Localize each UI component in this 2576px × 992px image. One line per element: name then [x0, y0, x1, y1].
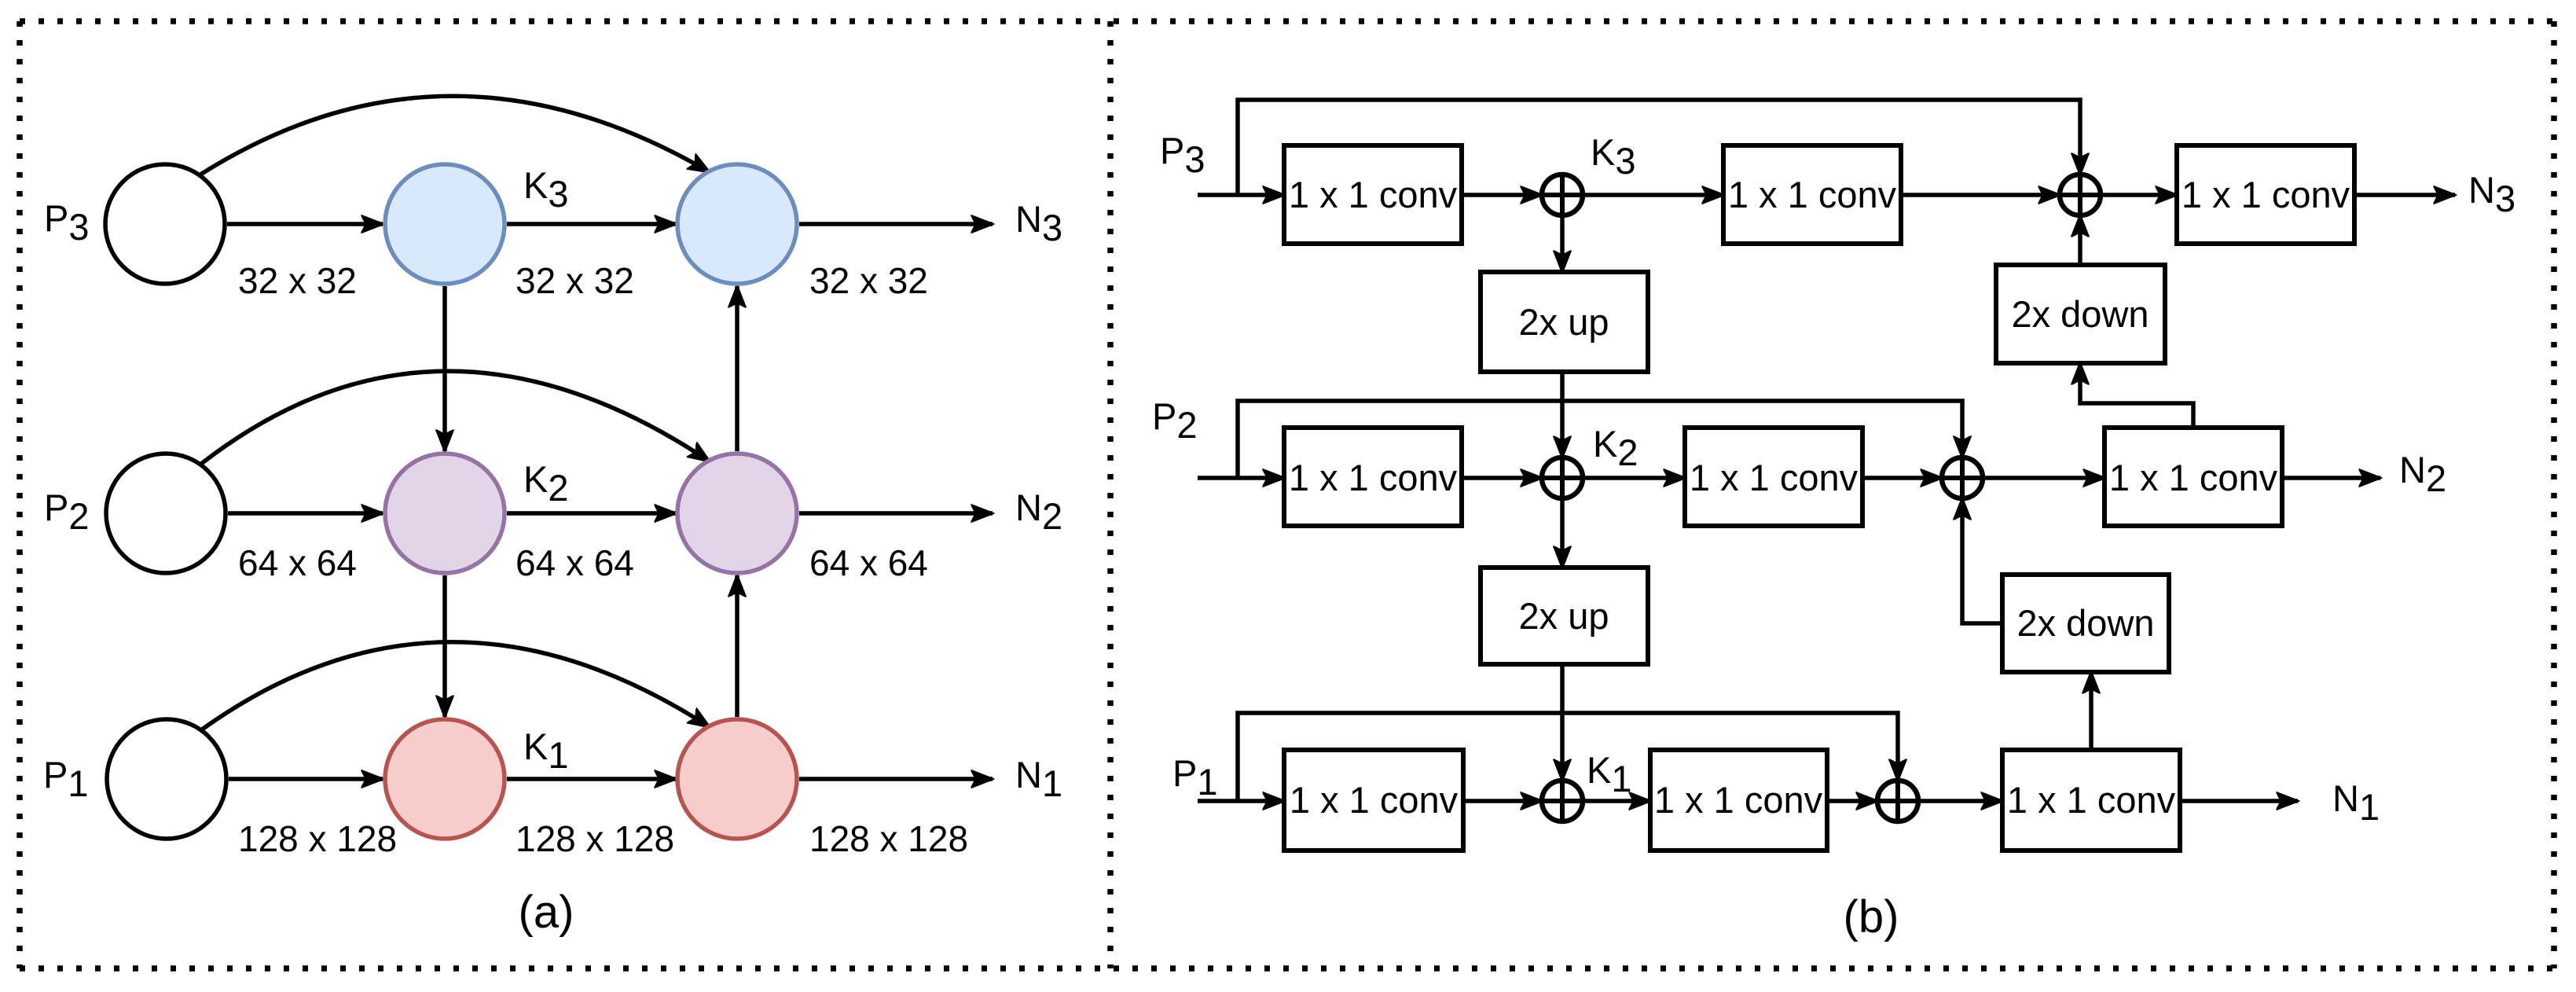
- svg-text:1 x 1 conv: 1 x 1 conv: [1690, 457, 1859, 498]
- feedback wire P1 skip to second adder row3 (b): [1238, 713, 1898, 801]
- box 1x1 conv third row3 (b): [2002, 750, 2180, 851]
- feedback wire P3 skip to second adder row1 (b): [1238, 100, 2080, 195]
- wire second node to N3 output row 1 (a): [799, 222, 993, 226]
- wire second adder to conv3 row1 (b): [2101, 193, 2177, 197]
- adder node second row2 (b): [1942, 457, 1983, 498]
- box 2x down row1 (b): [1996, 265, 2165, 363]
- box 2x up row1 (b): [1481, 272, 1648, 372]
- svg-text:1 x 1 conv: 1 x 1 conv: [1654, 779, 1823, 821]
- box 2x up row2 (b): [1481, 568, 1648, 664]
- wire P3 circle to first node row 1 (a): [227, 222, 383, 226]
- node K1 red circle (a): [385, 719, 505, 839]
- wire first node to second node row 1 (a): [507, 222, 676, 226]
- wire conv3 to N2 output (b): [2282, 476, 2380, 480]
- svg-text:(a): (a): [519, 887, 574, 938]
- box 1x1 conv first row3 (b): [1284, 750, 1463, 851]
- box 1x1 conv third row2 (b): [2104, 428, 2282, 526]
- wire conv2 to second adder row1 (b): [1901, 193, 2060, 197]
- svg-text:2x down: 2x down: [2016, 602, 2154, 644]
- dotted frame left edge: [17, 21, 23, 968]
- wire 2x up row2 down to adder K1 (b): [1560, 664, 1565, 781]
- box 1x1 conv first row2 (b): [1284, 428, 1462, 526]
- svg-text:128 x 128: 128 x 128: [809, 818, 968, 859]
- adder node second row1 (b): [2060, 175, 2101, 215]
- wire P2 circle to first node row 2 (a): [228, 511, 383, 516]
- feedback wire P2 skip to second adder row2 (b): [1238, 401, 1962, 478]
- box 1x1 conv second row2 (b): [1685, 428, 1862, 526]
- box 1x1 conv first row1 (b): [1284, 145, 1462, 244]
- wire conv3 to N1 output (b): [2180, 799, 2298, 803]
- curved skip wire P3 to N3 node (a): [200, 96, 710, 175]
- svg-text:2x up: 2x up: [1519, 595, 1609, 637]
- wire adder K2 down to 2x up row2 (b): [1560, 498, 1565, 568]
- wire second node to N2 output row 2 (a): [799, 511, 993, 516]
- wire first node to second node row 3 (a): [507, 777, 676, 781]
- box 1x1 conv second row1 (b): [1723, 145, 1901, 244]
- node P3 input circle (a): [105, 164, 225, 284]
- adder node K2 (b): [1542, 457, 1583, 498]
- svg-text:1 x 1 conv: 1 x 1 conv: [1728, 174, 1897, 215]
- node P1 input circle (a): [107, 719, 226, 839]
- wire conv1 to adder K1 (b): [1463, 799, 1542, 803]
- svg-text:1 x 1 conv: 1 x 1 conv: [2109, 457, 2278, 498]
- curved skip wire P1 to N1 node (a): [202, 642, 710, 729]
- wire 2x down row1 up to second adder row1 (b): [2078, 215, 2082, 265]
- box 1x1 conv second row3 (b): [1650, 750, 1827, 851]
- wire second adder to conv3 row3 (b): [1918, 799, 2002, 803]
- wire conv2 to second adder row2 (b): [1862, 476, 1942, 480]
- wire P2 input into conv row2 (b): [1198, 476, 1284, 480]
- wire first node to second node row 2 (a): [507, 511, 676, 516]
- wire P1 circle to first node row 3 (a): [229, 777, 383, 781]
- wire adder K3 down to 2x up row1 (b): [1560, 215, 1565, 272]
- svg-text:1 x 1 conv: 1 x 1 conv: [2007, 779, 2176, 821]
- dotted frame right edge: [2551, 21, 2557, 968]
- wire P1 input into conv row3 (b): [1198, 799, 1284, 803]
- adder node K3 (b): [1542, 175, 1583, 215]
- svg-text:64 x 64: 64 x 64: [238, 542, 357, 583]
- svg-text:64 x 64: 64 x 64: [516, 542, 634, 583]
- wire P1 input into conv row1 (b): [1198, 193, 1284, 197]
- node N3 blue circle (a): [677, 164, 797, 284]
- wire adder K1 to conv2 row3 (b): [1583, 799, 1650, 803]
- wire second node to N1 output row 3 (a): [799, 777, 993, 781]
- wire conv3 to N3 output (b): [2354, 193, 2455, 197]
- wire K2 node down to K1 node (a): [442, 575, 447, 717]
- wire 2x down row2 up to second adder row2 (b): [1962, 498, 2002, 623]
- wire conv1 to adder K2 (b): [1462, 476, 1542, 480]
- node P2 input circle (a): [106, 454, 226, 573]
- wire conv3 row3 up to 2x down row2 (b): [2089, 672, 2093, 750]
- svg-text:1 x 1 conv: 1 x 1 conv: [2182, 174, 2350, 215]
- dotted divider between panel (a) and panel (b): [1107, 21, 1114, 968]
- wire 2x up row1 down to adder K2 (b): [1560, 372, 1565, 457]
- dotted frame bottom edge: [20, 965, 2554, 972]
- node N1 red circle (a): [677, 719, 797, 839]
- wire K3 node down to K2 node (a): [442, 286, 447, 451]
- svg-text:32 x 32: 32 x 32: [238, 260, 357, 301]
- adder node second row3 (b): [1877, 781, 1918, 821]
- wire N1 node up to N2 node (a): [735, 575, 739, 717]
- svg-text:128 x 128: 128 x 128: [238, 818, 397, 859]
- wire adder K2 to conv2 row2 (b): [1583, 476, 1685, 480]
- box 1x1 conv third row1 (b): [2177, 145, 2354, 244]
- box 2x down row2 (b): [2002, 575, 2169, 672]
- adder node K1 (b): [1542, 781, 1583, 821]
- svg-text:1 x 1 conv: 1 x 1 conv: [1289, 457, 1458, 498]
- svg-text:1 x 1 conv: 1 x 1 conv: [1289, 174, 1458, 215]
- wire second adder to conv3 row2 (b): [1983, 476, 2104, 480]
- curved skip wire P2 to N2 node (a): [201, 371, 710, 464]
- svg-text:32 x 32: 32 x 32: [516, 260, 634, 301]
- node K3 blue circle (a): [385, 164, 505, 284]
- wire N2 node up to N3 node (a): [735, 286, 739, 451]
- svg-text:128 x 128: 128 x 128: [516, 818, 674, 859]
- dotted frame top edge: [20, 18, 2554, 24]
- wire adder K3 to conv2 row1 (b): [1583, 193, 1723, 197]
- node K2 purple circle (a): [385, 454, 505, 573]
- svg-text:2x up: 2x up: [1519, 301, 1609, 343]
- wire conv1 to adder K3 (b): [1462, 193, 1542, 197]
- svg-text:64 x 64: 64 x 64: [809, 542, 928, 583]
- node N2 purple circle (a): [677, 454, 797, 573]
- svg-text:1 x 1 conv: 1 x 1 conv: [1290, 779, 1459, 821]
- wire conv3 row2 up to 2x down row1 (b): [2080, 363, 2193, 428]
- svg-text:(b): (b): [1844, 891, 1899, 942]
- svg-text:32 x 32: 32 x 32: [809, 260, 928, 301]
- wire conv2 to second adder row3 (b): [1827, 799, 1877, 803]
- svg-text:2x down: 2x down: [2011, 293, 2149, 335]
